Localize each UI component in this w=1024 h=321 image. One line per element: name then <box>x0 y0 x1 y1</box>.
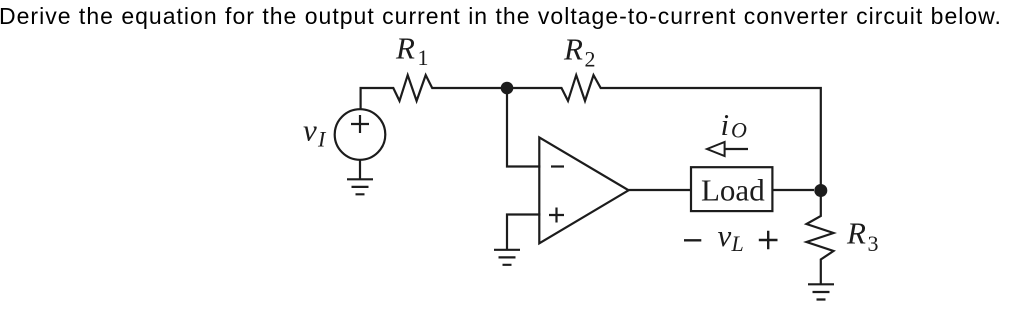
svg-text:2: 2 <box>585 46 596 71</box>
svg-text:Load: Load <box>701 172 765 207</box>
svg-text:v: v <box>303 113 317 148</box>
svg-text:3: 3 <box>868 231 879 256</box>
svg-text:L: L <box>731 231 744 256</box>
svg-text:1: 1 <box>418 45 429 70</box>
svg-text:I: I <box>317 127 327 152</box>
svg-text:v: v <box>718 218 732 253</box>
svg-text:O: O <box>731 118 747 143</box>
svg-text:i: i <box>721 107 730 142</box>
svg-text:R: R <box>563 32 583 67</box>
svg-text:R: R <box>846 216 866 251</box>
svg-text:R: R <box>395 31 415 66</box>
